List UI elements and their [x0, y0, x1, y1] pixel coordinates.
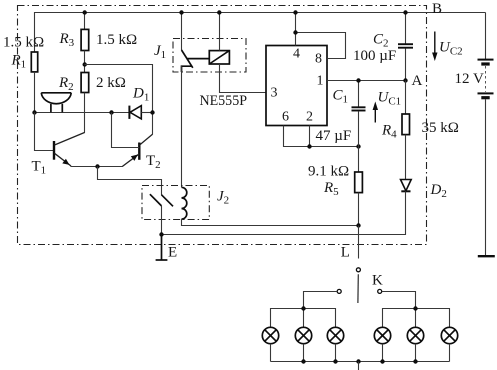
wire: node A to R4	[405, 81, 407, 115]
wire: node to T2 collector branch	[85, 65, 153, 135]
microphone B (electroacoustic transducer)	[41, 93, 71, 113]
resistor R4	[402, 114, 410, 135]
node: R3/R2 junction	[83, 62, 87, 66]
svg-text:B: B	[432, 1, 442, 17]
wire: J1 switch down to J2 coil	[181, 66, 183, 187]
capacitor C1	[352, 81, 366, 147]
node: C1 top junction	[356, 78, 360, 82]
wire: emitter to J2 switch link	[98, 167, 162, 196]
node: emitter junction	[95, 164, 99, 168]
wire: pin 4 / pin 8 tie loop	[296, 33, 346, 59]
svg-text:9.1 kΩ: 9.1 kΩ	[308, 163, 349, 179]
node: rail junction pin4	[293, 10, 297, 14]
svg-text:4: 4	[293, 47, 300, 62]
wire: +12V top rail	[35, 13, 486, 53]
wire: R3 top feed	[84, 13, 86, 30]
transistor T1	[54, 132, 85, 166]
node: pin4 loop junction	[293, 30, 297, 34]
svg-text:100 µF: 100 µF	[353, 48, 396, 64]
svg-text:47 µF: 47 µF	[316, 128, 352, 144]
wire: left middle lamp feed	[303, 309, 305, 328]
diode D2	[401, 180, 412, 192]
svg-text:E: E	[168, 245, 177, 261]
lamp EL3	[327, 327, 343, 343]
wire: D1 cathode to T2 collector branch	[141, 112, 152, 114]
relay J1 dash-dot box	[173, 39, 246, 73]
diode D1	[129, 106, 141, 119]
battery GB 12V	[478, 13, 495, 257]
outer dash-dot enclosure box	[18, 6, 427, 245]
wire: right middle lamp feed	[415, 309, 417, 328]
svg-text:1: 1	[317, 74, 324, 89]
svg-text:35 kΩ: 35 kΩ	[422, 120, 459, 136]
switch K pole terminal	[356, 268, 360, 272]
wire: microphone/base horizontal rail	[35, 112, 130, 114]
node: R5 bottom junction	[356, 223, 360, 227]
switch K right contact	[378, 289, 382, 293]
relay contact J2 blades	[150, 194, 173, 206]
lamp EL5	[407, 327, 423, 343]
node: D1/collector junction	[150, 110, 154, 114]
relay coil J1 box	[209, 51, 229, 64]
node: R1 / mic junction	[32, 110, 36, 114]
wire: pin 1 to node A	[327, 80, 406, 82]
node: rail junction J1 coil	[217, 10, 221, 14]
wire: pin 4 to rail	[295, 13, 297, 46]
wire: R1 bottom to input node	[34, 72, 36, 113]
lamp EL2	[295, 327, 311, 343]
voltage arrow UC1	[373, 102, 378, 123]
svg-text:A: A	[412, 73, 423, 89]
node: T2 base junction	[109, 110, 113, 114]
wire: lamp drops left group	[271, 344, 336, 362]
resistor R2	[81, 73, 89, 93]
wire: J2 switch to ground node	[161, 206, 163, 235]
wire: rail to J1 switch	[181, 13, 183, 51]
svg-text:8: 8	[315, 52, 322, 67]
voltage arrow UC2	[432, 32, 437, 62]
relay contact J1 blade	[182, 50, 210, 72]
svg-text:2: 2	[306, 110, 313, 125]
node: bottom rail junctions	[301, 359, 417, 363]
wire: R4 to D2	[405, 135, 407, 180]
wire: left lamp group top rail	[271, 309, 336, 328]
ground E symbol	[156, 235, 168, 261]
svg-text:K: K	[372, 273, 383, 289]
wire: ground rail to D2 cathode	[162, 191, 406, 234]
resistor R5	[355, 147, 363, 226]
svg-text:NE555P: NE555P	[200, 93, 248, 109]
svg-text:2 kΩ: 2 kΩ	[96, 75, 126, 91]
node: rail junction J1 switch	[179, 10, 183, 14]
svg-text:3: 3	[271, 86, 278, 101]
timer IC U1 NE555P	[266, 46, 327, 126]
wire: T2 base drop	[112, 113, 140, 148]
node: ground junction	[159, 232, 163, 236]
wire: R3 bottom to node	[84, 51, 86, 73]
node: pin2/pin6 junction	[307, 144, 311, 148]
node: rail junction to R3	[83, 10, 87, 14]
svg-text:1.5 kΩ: 1.5 kΩ	[96, 32, 137, 48]
lamp EL6	[441, 327, 457, 343]
wire: rail to J1 coil	[219, 13, 221, 51]
wire: bottom rail stub to common	[358, 362, 360, 370]
wire: right lamp group top rail	[383, 309, 450, 328]
wire: pin 6 drop	[284, 126, 359, 147]
relay J2 dash-dot box	[142, 186, 209, 220]
node: right group junction	[413, 306, 417, 310]
wire: pin 2 drop	[309, 126, 311, 147]
node: left group junction	[301, 306, 305, 310]
svg-text:12 V: 12 V	[455, 71, 484, 87]
capacitor C2	[398, 44, 413, 80]
resistor R3	[81, 29, 89, 50]
node: C1 bottom junction	[356, 144, 360, 148]
node A junction	[403, 78, 407, 82]
wire: rail to C2	[405, 13, 407, 44]
switch K left contact	[337, 289, 341, 293]
wire: lamp drops right group	[383, 344, 450, 362]
wire: T1 base feed	[35, 113, 54, 151]
wire: R5 bottom to lamp switch (node L)	[358, 226, 360, 259]
lamp EL4	[374, 327, 390, 343]
switch K blade	[357, 274, 359, 303]
wire: shared emitter rail	[71, 166, 123, 168]
svg-text:6: 6	[282, 110, 289, 125]
lamp EL1	[262, 327, 278, 343]
wire: lamp bottom rail	[271, 361, 450, 363]
relay coil J2 (inductor)	[182, 187, 187, 219]
wire: J2 coil bottom to R5 bottom	[182, 219, 359, 225]
svg-text:L: L	[341, 245, 350, 261]
resistor R1	[31, 52, 37, 72]
wire: J1 coil to 555 pin 3	[220, 64, 267, 93]
svg-text:1.5 kΩ: 1.5 kΩ	[3, 35, 44, 51]
wire: R2 bottom down to T1 collector	[84, 93, 86, 133]
transistor T2	[122, 134, 152, 166]
wire: left contact to left lamp group	[304, 292, 338, 309]
wire: right contact to right lamp group	[382, 292, 416, 309]
node: rail junction C2	[403, 10, 407, 14]
